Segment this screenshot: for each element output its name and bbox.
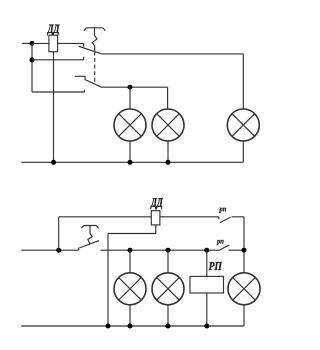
wire: contact RP2 output — [229, 249, 245, 251]
label рп (contact 1) — [219, 208, 226, 213]
wire: left bus vertical — [31, 43, 33, 92]
wire: lamp 1 top lead — [129, 87, 131, 109]
wire: bus corner to pole 2 lower fixed contact, tick up — [32, 90, 84, 92]
node: dot relay coil feed — [204, 248, 209, 253]
lamp EL1 (top circuit) — [114, 109, 146, 141]
node: junction dot lamp 1 feed — [128, 85, 133, 90]
switch SA2 actuator staple (bottom) — [81, 226, 98, 229]
wire: bus to pole 2 upper fixed contact, tick up — [32, 57, 84, 60]
wire: lamp 2 top lead — [167, 87, 169, 109]
lamp EL6 (bottom circuit) — [228, 273, 260, 305]
label РП (relay coil) — [209, 262, 223, 270]
relay contact RP1 blade — [220, 217, 231, 223]
switch pole 2 blade assembly — [75, 76, 102, 87]
node: dot coil on bus — [204, 324, 209, 329]
node: dot lamp2 feed — [166, 248, 171, 253]
wire: lamp 5 top lead — [167, 250, 169, 273]
switch SA1 mechanical link dashed — [94, 58, 96, 84]
wire: pole 2 output — [101, 86, 167, 88]
switch SA1 actuator staple (top) — [84, 28, 105, 31]
wire: ДД bottom lead down to bottom bus — [53, 52, 55, 163]
wire: lamp 3 bottom lead — [242, 141, 244, 162]
wire: bottom bus (bottom circuit) — [21, 325, 244, 327]
node: dot lamp4 on bus — [128, 324, 133, 329]
node: dot branch up — [56, 248, 61, 253]
node: dot lamp3 feed — [242, 248, 247, 253]
wire: bottom bus (top circuit) — [21, 161, 243, 163]
lamp EL5 (bottom circuit) — [152, 273, 184, 305]
switch SA1 actuator link with zigzag — [92, 28, 97, 56]
node: dot ДД return on bus — [106, 324, 111, 329]
wire: ДД to switch pole 1 fixed contact, with down tick — [58, 43, 84, 47]
wire: lamp 3 top lead — [242, 54, 244, 109]
node: junction dot top bus 2 — [30, 57, 35, 62]
wire: relay coil bottom lead — [206, 293, 208, 326]
relay coil РП rectangle — [190, 276, 224, 293]
switch SA2 blade — [79, 241, 99, 248]
wire: ДД to relay contact RP1 — [160, 217, 219, 220]
wire: lamp 4 top lead — [129, 250, 131, 273]
wire: pole 1 output to lamp 3 — [102, 53, 244, 55]
switch SA2 fixed contact tick — [78, 248, 80, 251]
sensor ДД rectangle (top circuit) — [49, 35, 58, 52]
wire: relay coil top lead — [206, 250, 208, 276]
wire: lamp 2 bottom lead — [167, 141, 169, 162]
wire: contact RP1 output, corner down — [232, 217, 245, 273]
node: dot lamp2 on bus — [166, 160, 171, 165]
wire: branch vertical up — [58, 217, 60, 250]
relay contact RP2 blade — [219, 245, 229, 250]
wire: lamp 5 bottom lead — [167, 305, 169, 326]
label ДД (sensor, top circuit) — [47, 25, 59, 36]
lamp EL4 (bottom circuit) — [114, 273, 146, 305]
lamp EL2 (top circuit) — [152, 109, 184, 141]
wire: lamp 6 bottom lead — [243, 305, 245, 326]
wire: input stub L2 — [21, 249, 78, 251]
wire: bus to ДД — [32, 42, 49, 44]
wire: lamp 4 bottom lead — [129, 305, 131, 326]
node: dot ДД lead on bus — [51, 160, 56, 165]
label рп (contact 2) — [217, 240, 224, 245]
switch pole 1 blade — [79, 46, 102, 54]
wire: top wire to ДД — [59, 216, 152, 218]
node: dot lamp1 on bus — [128, 160, 133, 165]
wire: ДД bottom return lead — [108, 225, 156, 326]
node: junction dot top bus 1 — [30, 41, 35, 46]
wire: input stub L1 — [22, 42, 32, 44]
label ДД (sensor, bottom circuit) — [150, 198, 162, 209]
wire: lamps feed line (bottom circuit) — [100, 249, 219, 251]
node: dot lamp1 feed — [128, 248, 133, 253]
wire: lamp 1 bottom lead — [129, 141, 131, 162]
lamp EL3 (top circuit) — [227, 109, 259, 141]
sensor ДД rectangle (bottom circuit) — [151, 211, 160, 225]
node: dot lamp5 on bus — [166, 324, 171, 329]
switch SA2 actuator link with zigzag — [88, 226, 92, 244]
